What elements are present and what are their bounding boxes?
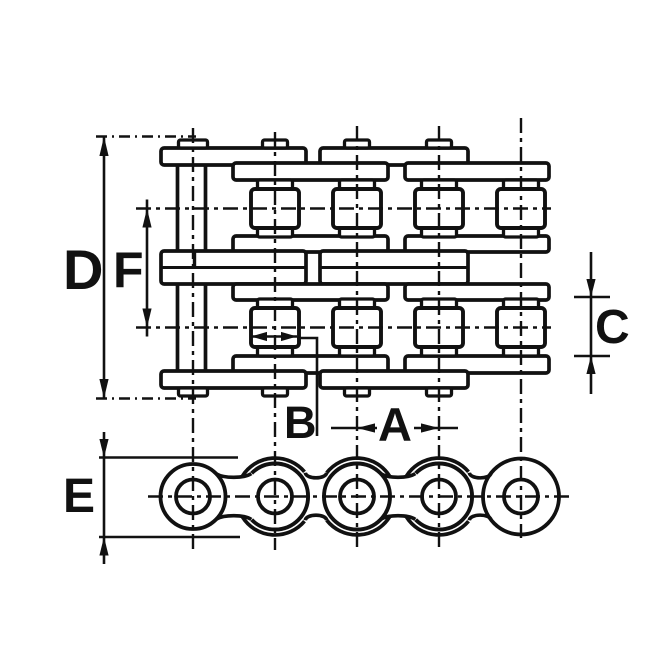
bushing row1 top pin4 <box>422 180 457 189</box>
bushing row1 bottom pin4 <box>422 228 457 237</box>
inner link 2-3 arc pin2 top <box>242 458 304 476</box>
dimension C tick bottom <box>574 355 610 358</box>
svg-text:A: A <box>378 398 412 451</box>
center plate right <box>320 251 468 284</box>
bushing row2 top pin2 <box>258 299 293 308</box>
pin 3 bottom cap <box>345 388 370 396</box>
inner link 2-3 arc pin2 bottom <box>242 517 304 535</box>
link plate inner 2-3 waists <box>305 473 326 520</box>
dimension C arrow bottom <box>586 356 595 374</box>
roller arc pin4 <box>416 464 472 530</box>
inner plate row1 lower left <box>233 236 388 252</box>
bushing row1 bottom pin2 <box>258 228 293 237</box>
pin circle pin3 <box>340 480 374 514</box>
pin 1 top cap <box>179 140 208 148</box>
dimension C tick top <box>574 296 610 299</box>
center plate left <box>161 251 306 284</box>
roller row1 pin5 <box>497 189 545 228</box>
dimension F arrow bottom <box>142 309 151 328</box>
outer plate top left <box>161 148 306 165</box>
inner plate row1 upper left <box>233 163 388 180</box>
bushing row2 bottom pin3 <box>340 347 375 356</box>
link plate inner 4-5 waists <box>469 473 491 520</box>
dimension B arrow line <box>251 335 297 338</box>
pin 4 centerline <box>438 126 440 552</box>
roller circle pin3 <box>324 464 390 530</box>
pin 4 top cap <box>427 140 452 148</box>
pin 2 centerline <box>274 132 276 550</box>
roller row2 pin4 <box>415 308 463 347</box>
dimension D extension bottom <box>96 397 196 400</box>
inner plate row2 lower right <box>405 356 549 373</box>
dimension E arrow top <box>99 439 108 458</box>
roller arc pin2 <box>252 464 308 530</box>
bushing row2 top pin5 <box>504 299 539 308</box>
bushing row2 bottom pin4 <box>422 347 457 356</box>
bushing row1 top pin3 <box>340 180 375 189</box>
pin 4 bottom cap <box>427 388 452 396</box>
roller row2 pin3 <box>333 308 381 347</box>
dimension D line <box>103 137 106 399</box>
pin 1 centerline <box>192 128 194 554</box>
label F <box>113 242 144 298</box>
bushing row2 bottom pin2 <box>258 347 293 356</box>
pin 2 top cap <box>263 140 288 148</box>
bushing row2 top pin4 <box>422 299 457 308</box>
inner plate row2 upper left <box>233 284 388 300</box>
inner plate row2 lower left <box>233 356 388 373</box>
dimension A line left <box>331 427 377 430</box>
pin 5 centerline <box>520 118 522 538</box>
roller row1 pin2 <box>251 189 299 228</box>
inner link 4-5 arc pin4 bottom <box>406 517 468 535</box>
svg-text:D: D <box>63 238 103 301</box>
plate end circle pin1 <box>161 464 226 529</box>
dimension D arrow top <box>99 137 108 157</box>
pin rod left outline upper <box>178 165 206 251</box>
pin circle pin4 <box>422 480 456 514</box>
inner link 2-3 arc pin3 top <box>327 458 390 476</box>
dimension C arrow top <box>586 279 595 297</box>
center plate upper end divider <box>193 251 196 268</box>
dimension C line <box>590 252 593 394</box>
pin circle pin2 <box>258 480 292 514</box>
svg-text:F: F <box>113 242 144 298</box>
dimension A arrow left <box>357 423 375 432</box>
pin rod left outline lower <box>178 284 206 371</box>
label E <box>63 470 95 523</box>
bushing row1 top pin5 <box>504 180 539 189</box>
bushing row2 top pin3 <box>340 299 375 308</box>
pin 3 top cap <box>345 140 370 148</box>
dimension A arrow right <box>421 423 439 432</box>
bushing row1 bottom pin5 <box>504 228 539 237</box>
label B <box>284 397 317 448</box>
inner link 2-3 arc pin3 bottom <box>327 517 390 535</box>
outer plate top right <box>320 148 468 165</box>
roller row2 pin2 <box>251 308 299 347</box>
pin circle pin5 <box>504 480 538 514</box>
outer plate bottom left <box>161 371 306 388</box>
dimension B arrow left <box>251 332 267 341</box>
dimension E line <box>103 432 106 564</box>
inner plate row2 upper right <box>405 284 549 300</box>
inner plate row1 lower right <box>405 236 549 252</box>
outer plate bottom right <box>320 371 468 388</box>
side view centerline <box>148 495 570 497</box>
link plate outer 3-4 waists <box>381 474 416 520</box>
row1 centerline <box>136 207 551 209</box>
label C <box>595 301 630 354</box>
link plate outer 1-2 waists <box>216 474 251 520</box>
dimension E extension top <box>99 456 238 459</box>
dimension D extension top <box>96 135 196 138</box>
inner plate row1 upper right <box>405 163 549 180</box>
label D <box>63 238 103 301</box>
pin circle pin1 <box>176 480 210 514</box>
svg-text:B: B <box>284 397 317 448</box>
pin 2 bottom cap <box>263 388 288 396</box>
inner link 4-5 arc pin4 top <box>406 458 468 476</box>
dimension B arrow right <box>281 332 297 341</box>
plate end circle pin5 <box>483 459 559 535</box>
dimension F line <box>146 200 149 337</box>
pin 1 bottom cap <box>179 388 208 396</box>
roller row2 pin5 <box>497 308 545 347</box>
pin 3 centerline <box>356 126 358 552</box>
dimension B leader <box>297 338 317 436</box>
dimension E extension bottom <box>99 536 240 539</box>
dimension F arrow top <box>142 209 151 228</box>
roller row1 pin3 <box>333 189 381 228</box>
bushing row2 bottom pin5 <box>504 347 539 356</box>
dimension D arrow bottom <box>99 379 108 399</box>
roller row1 pin4 <box>415 189 463 228</box>
svg-text:E: E <box>63 470 95 523</box>
label A <box>378 398 412 451</box>
dimension E arrow bottom <box>99 537 108 556</box>
row2 centerline <box>136 326 551 328</box>
dimension A line right <box>414 427 458 430</box>
bushing row1 bottom pin3 <box>340 228 375 237</box>
svg-text:C: C <box>595 301 630 354</box>
bushing row1 top pin2 <box>258 180 293 189</box>
